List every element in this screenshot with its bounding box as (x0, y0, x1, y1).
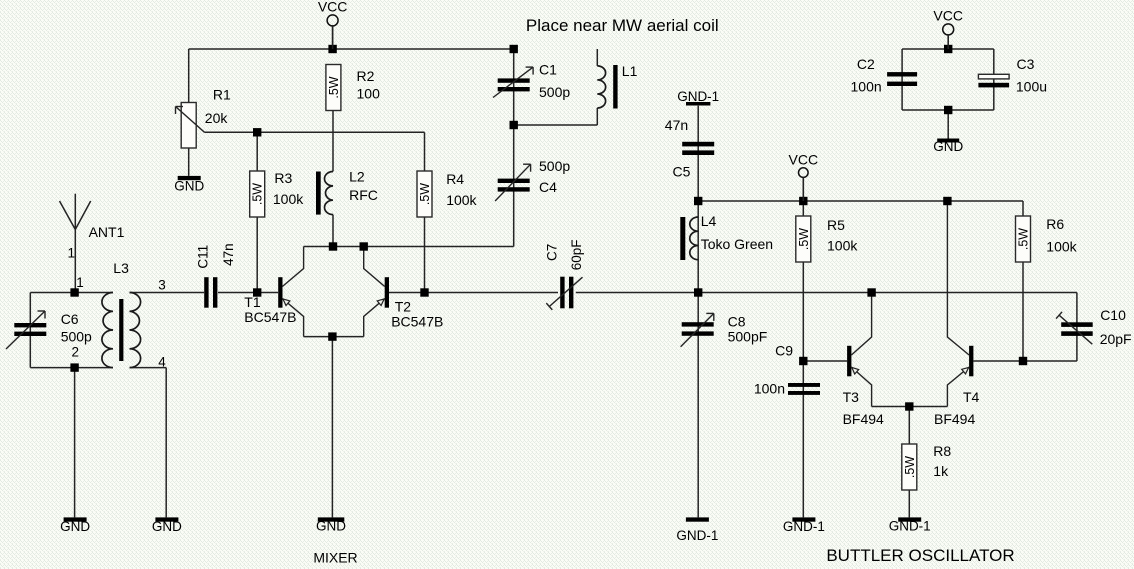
svg-text:C7: C7 (545, 244, 560, 261)
svg-text:C8: C8 (728, 314, 746, 330)
svg-text:.5W: .5W (418, 183, 432, 205)
svg-text:20k: 20k (205, 110, 229, 126)
svg-text:100n: 100n (754, 381, 785, 397)
svg-text:500pF: 500pF (728, 329, 768, 345)
svg-text:2: 2 (72, 345, 80, 360)
svg-text:BF494: BF494 (934, 411, 975, 427)
svg-text:GND-1: GND-1 (783, 519, 825, 534)
svg-text:100k: 100k (273, 191, 304, 207)
svg-text:R1: R1 (213, 87, 231, 103)
svg-text:.5W: .5W (1017, 228, 1031, 250)
svg-text:GND-1: GND-1 (889, 519, 931, 534)
svg-text:C2: C2 (857, 56, 875, 72)
svg-text:C1: C1 (539, 61, 557, 77)
svg-text:1: 1 (76, 275, 84, 290)
svg-text:C4: C4 (539, 179, 557, 195)
svg-text:L4: L4 (701, 213, 717, 229)
svg-text:T2: T2 (395, 298, 412, 314)
svg-text:BUTTLER OSCILLATOR: BUTTLER OSCILLATOR (826, 546, 1014, 565)
svg-text:500p: 500p (539, 84, 570, 100)
svg-text:L3: L3 (113, 260, 129, 276)
svg-text:100k: 100k (1046, 239, 1077, 255)
svg-text:100k: 100k (446, 192, 477, 208)
svg-text:1k: 1k (933, 463, 949, 479)
svg-text:47n: 47n (221, 243, 236, 266)
svg-text:GND: GND (174, 179, 204, 194)
svg-text:Toko Green: Toko Green (701, 236, 773, 252)
svg-text:GND-1: GND-1 (677, 89, 719, 104)
svg-text:100k: 100k (827, 238, 858, 254)
svg-text:RFC: RFC (349, 187, 378, 203)
svg-text:20pF: 20pF (1100, 331, 1132, 347)
svg-text:4: 4 (158, 355, 166, 370)
svg-text:R4: R4 (446, 171, 464, 187)
svg-text:100: 100 (357, 86, 381, 102)
svg-text:.5W: .5W (327, 76, 341, 98)
svg-text:500p: 500p (539, 158, 570, 174)
svg-text:L1: L1 (622, 63, 638, 79)
svg-text:C6: C6 (61, 311, 79, 327)
svg-text:R8: R8 (933, 443, 951, 459)
svg-text:C3: C3 (1017, 56, 1035, 72)
svg-text:100n: 100n (851, 79, 882, 95)
svg-text:60pF: 60pF (569, 240, 584, 271)
svg-text:L2: L2 (349, 169, 365, 185)
svg-text:GND: GND (316, 519, 346, 534)
svg-text:C10: C10 (1100, 307, 1126, 323)
svg-text:R2: R2 (357, 68, 375, 84)
svg-text:1: 1 (68, 245, 76, 260)
svg-text:R6: R6 (1046, 216, 1064, 232)
svg-text:.5W: .5W (903, 456, 917, 478)
svg-text:VCC: VCC (933, 7, 963, 23)
svg-text:T3: T3 (843, 389, 860, 405)
svg-text:BC547B: BC547B (244, 309, 296, 325)
svg-text:GND: GND (933, 139, 963, 154)
svg-text:C9: C9 (775, 343, 793, 359)
svg-text:GND-1: GND-1 (676, 528, 718, 543)
svg-text:500p: 500p (61, 329, 92, 345)
svg-text:C5: C5 (673, 163, 691, 179)
svg-text:100u: 100u (1016, 79, 1047, 95)
svg-text:.5W: .5W (251, 183, 265, 205)
svg-text:ANT1: ANT1 (89, 224, 125, 240)
svg-text:BC547B: BC547B (391, 313, 443, 329)
svg-text:3: 3 (158, 278, 166, 293)
svg-text:BF494: BF494 (843, 411, 884, 427)
svg-text:T1: T1 (244, 294, 261, 310)
svg-text:GND: GND (152, 519, 182, 534)
svg-text:T4: T4 (963, 389, 980, 405)
svg-text:R5: R5 (827, 217, 845, 233)
svg-text:VCC: VCC (789, 151, 819, 167)
svg-text:47n: 47n (665, 117, 688, 133)
svg-text:GND: GND (60, 519, 90, 534)
svg-text:MIXER: MIXER (313, 550, 357, 566)
svg-text:VCC: VCC (318, 0, 348, 14)
svg-text:.5W: .5W (797, 228, 811, 250)
svg-text:C11: C11 (196, 245, 211, 269)
svg-text:Place near MW aerial coil: Place near MW aerial coil (526, 16, 719, 35)
svg-text:R3: R3 (274, 170, 292, 186)
